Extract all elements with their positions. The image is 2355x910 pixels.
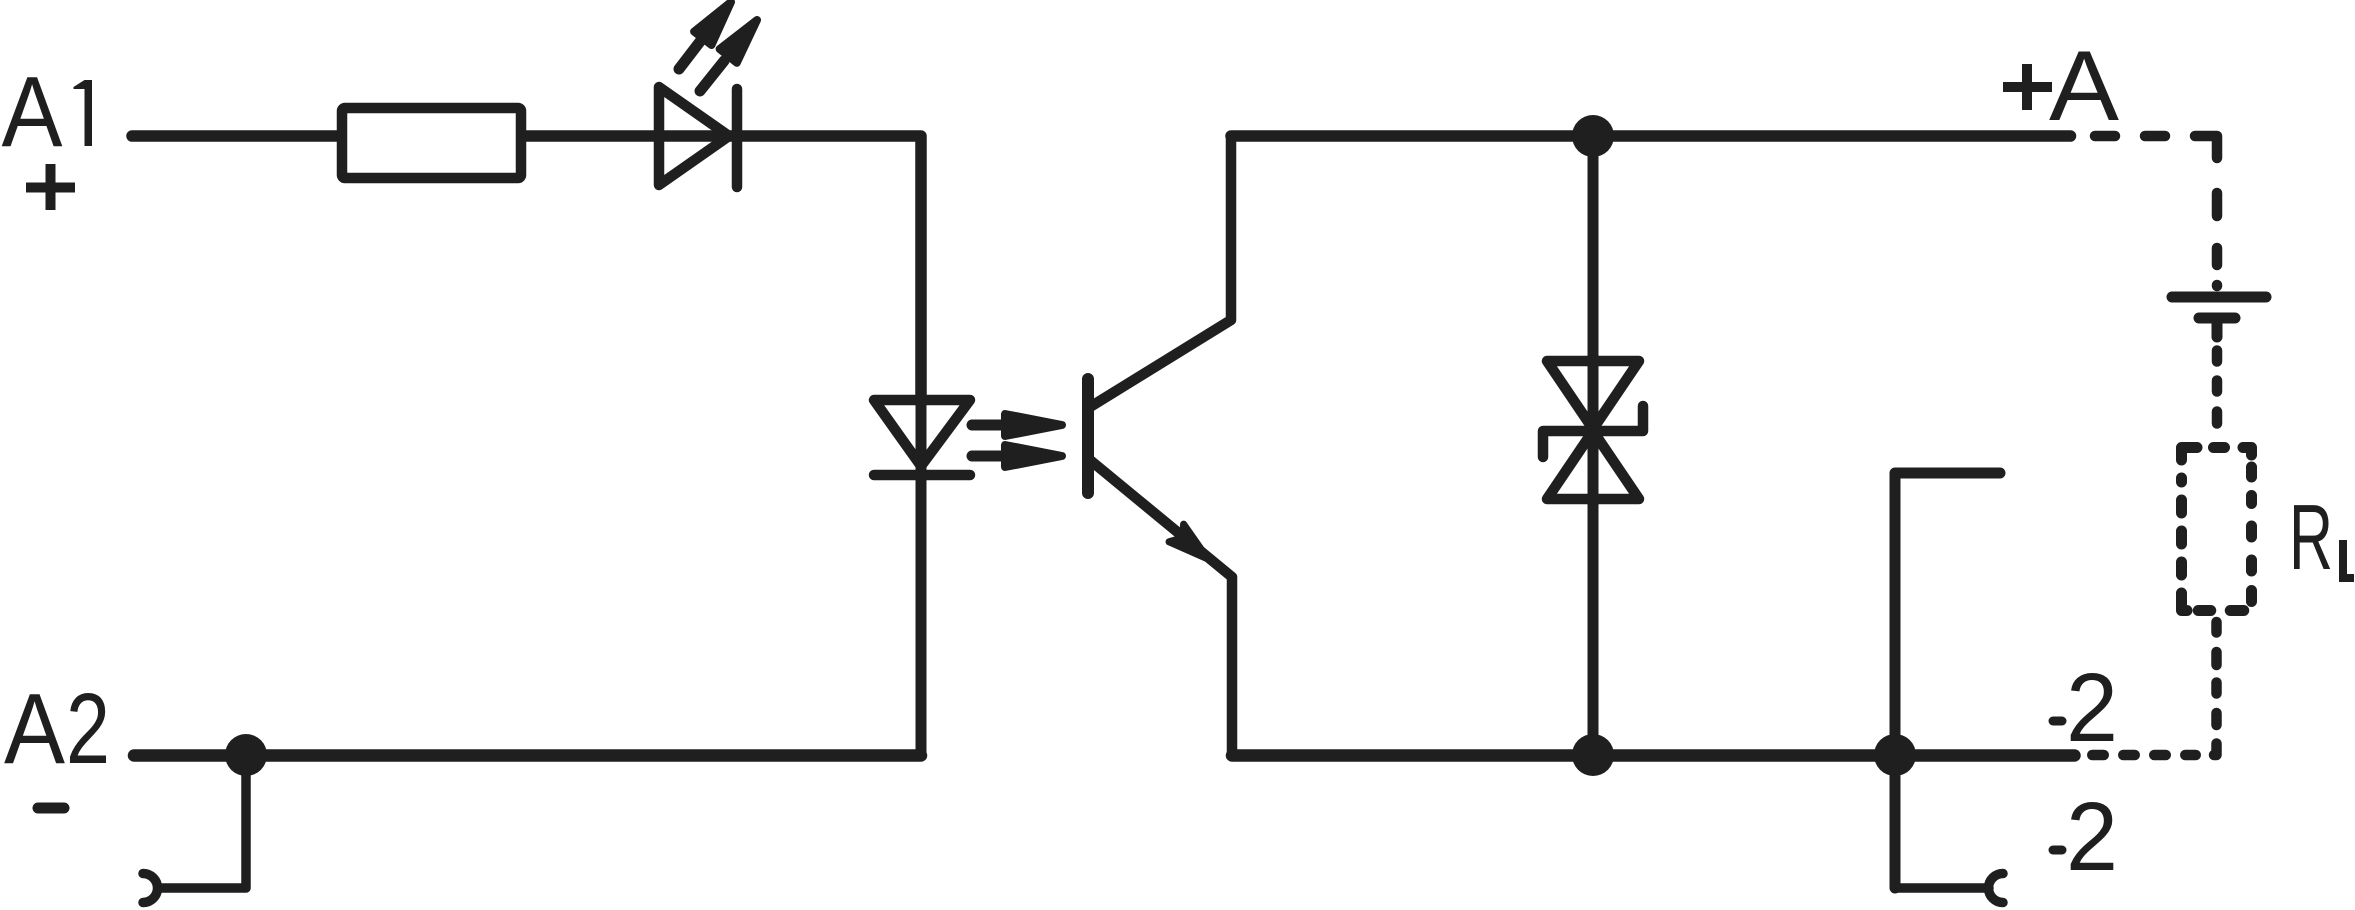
label RL	[2289, 485, 2354, 589]
junction dot -2 rail	[1874, 734, 1916, 776]
battery B1	[2172, 297, 2266, 337]
svg-text:2: 2	[2066, 653, 2118, 762]
junction dot +A / TVS	[1572, 115, 1614, 157]
svg-text:A: A	[2049, 30, 2119, 141]
polarity plus A1	[26, 164, 75, 210]
clamp contact -2	[1988, 874, 2003, 903]
phototransistor collector wire	[1090, 136, 1231, 407]
label -2 lower	[2053, 782, 2118, 891]
emitter arrowhead	[1169, 524, 1208, 559]
svg-text:A: A	[2, 56, 63, 168]
dashed wire battery to load	[2212, 351, 2223, 424]
A2 rail	[134, 749, 921, 762]
terminal label A1	[2, 56, 93, 168]
load resistor RL dashed box	[2182, 448, 2252, 611]
terminal label A2	[4, 673, 110, 785]
junction dot A2 / clamp	[225, 734, 267, 776]
phototransistor emitter wire	[1090, 460, 1232, 755]
phototransistor Q1 base bar	[1082, 379, 1094, 493]
resistor R1	[342, 108, 521, 178]
top rail +A	[1231, 130, 2071, 142]
dashed wire +A to battery	[2095, 136, 2217, 286]
optocoupler LED D2	[874, 400, 970, 475]
svg-text:R: R	[2289, 485, 2333, 589]
wire A1 to resistor	[132, 130, 337, 142]
svg-text:2: 2	[66, 673, 110, 785]
junction dot TVS / -2 rail	[1572, 734, 1614, 776]
suppressor diode TVS	[1543, 136, 1643, 755]
label +A	[2003, 30, 2119, 141]
svg-text:A: A	[4, 673, 65, 785]
label -2 upper	[2053, 653, 2118, 762]
LED D1 light emission arrows	[679, 2, 757, 91]
polarity minus A2	[38, 803, 64, 814]
optocoupler light arrows	[972, 414, 1062, 467]
dashed wire load to -2 rail	[2092, 622, 2216, 755]
bottom output rail	[1232, 749, 2075, 762]
LED D1	[659, 87, 737, 187]
load return wire	[1895, 473, 2000, 888]
wire optocoupler cathode to A2 rail	[916, 400, 927, 755]
wire LED cathode to optocoupler corner	[737, 136, 921, 402]
svg-text:2: 2	[2066, 782, 2118, 891]
clamp contact A2	[143, 874, 158, 903]
wire resistor to LED anode	[527, 130, 737, 142]
clamp wire A2	[158, 760, 246, 888]
